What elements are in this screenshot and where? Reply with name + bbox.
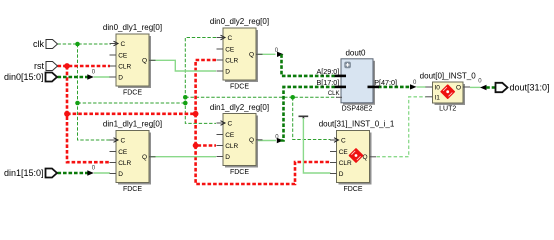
- flip-flop dout[31]_INST_0_i_1 FDCE: [319, 120, 395, 194]
- wire clk branch y=103 to x=172: [78, 102, 186, 104]
- wire dout31 Q to LUT2 I1: [377, 97, 427, 157]
- svg-text:din1_dly1_reg[0]: din1_dly1_reg[0]: [103, 120, 162, 129]
- node clk junction x172 y97.3: [183, 95, 188, 100]
- wire dout bus to port: [486, 86, 495, 89]
- wire din0_dly2 Q to ripper: [256, 53, 276, 55]
- svg-text:CLK: CLK: [328, 91, 340, 97]
- pin P[47:0]: [368, 86, 380, 89]
- svg-text:din0_dly1_reg[0]: din0_dly1_reg[0]: [103, 23, 162, 32]
- svg-text:dout[31]_INST_0_i_1: dout[31]_INST_0_i_1: [319, 120, 395, 129]
- svg-text:A[29:0]: A[29:0]: [317, 67, 340, 76]
- svg-text:I1: I1: [435, 94, 441, 101]
- svg-text:FDCE: FDCE: [123, 90, 142, 97]
- wire rst vertical x=195.6 up to din0_dly2 CLR: [196, 60, 216, 114]
- wire rst branch to din1_dly2 CLR: [196, 114, 216, 146]
- node merge triangle dout: [480, 85, 487, 90]
- wire din0_dly1 Q to din0_dly2 D: [149, 60, 216, 71]
- svg-text:P[47:0]: P[47:0]: [374, 78, 397, 87]
- wire rst net: port to din0_dly1 CLR: [58, 65, 111, 68]
- svg-text:B[17:0]: B[17:0]: [317, 78, 340, 87]
- wire P bit to LUT2 I0: [417, 86, 427, 88]
- svg-text:dout[0]_INST_0: dout[0]_INST_0: [420, 72, 477, 81]
- wire rst branch y=113.6: [67, 113, 196, 116]
- svg-text:din1_dly2_reg[0]: din1_dly2_reg[0]: [210, 103, 269, 112]
- pin B[17:0]: [335, 86, 346, 89]
- svg-text:din0[15:0]: din0[15:0]: [4, 72, 44, 82]
- wire clk branch down x=292.7 to dout31 C: [293, 97, 331, 139]
- DSP dout0 DSP48E2: [317, 49, 397, 113]
- node clk junction at port line: [75, 42, 80, 47]
- wire din0 bus from port: [58, 76, 89, 79]
- LUT dout[0]_INST_0 LUT2: [420, 72, 477, 113]
- flip-flop din1_dly1_reg[0] FDCE: [103, 120, 162, 194]
- port din0[15:0]: [4, 72, 57, 82]
- svg-text:O: O: [456, 85, 461, 92]
- wire din0 bit0 to D: [94, 76, 110, 78]
- wire din1_dly1 Q to din1_dly2 D: [149, 156, 216, 158]
- wire din1 bit0 to D: [94, 172, 110, 174]
- wire LUT2 O to merge triangle: [470, 86, 481, 88]
- svg-text:LUT2: LUT2: [439, 106, 456, 113]
- pin A[29:0]: [335, 75, 346, 78]
- node clk junction trunk/branch: [75, 101, 80, 106]
- svg-text:FDCE: FDCE: [123, 186, 142, 193]
- node clk junction x292.7: [290, 95, 295, 100]
- svg-text:FDCE: FDCE: [230, 84, 249, 91]
- wire const0 to dout31 D: [303, 118, 330, 173]
- svg-text:din1[15:0]: din1[15:0]: [4, 168, 44, 178]
- wire din1_dly2 Q to ripper: [256, 140, 276, 142]
- wire rst bottom route to dout31 CLR: [196, 146, 331, 185]
- node ripper triangle P->I0: [410, 84, 417, 89]
- svg-text:FDCE: FDCE: [343, 186, 362, 193]
- pin I0: [426, 86, 433, 88]
- port dout[31:0]: [496, 82, 550, 92]
- wire clk vertical trunk x=77.5 down to din1_dly1 C: [78, 44, 111, 140]
- port din1[15:0]: [4, 168, 57, 178]
- pin O: [463, 86, 470, 88]
- wire clk vertical x=172 from din0_dly2 C down to din1_dly2 C: [185, 38, 216, 124]
- svg-text:FDCE: FDCE: [230, 169, 249, 176]
- ground const0 tie symbol: [299, 116, 309, 119]
- svg-text:I0: I0: [435, 85, 441, 92]
- port clk: [33, 39, 58, 49]
- node rst junction at port line: [64, 63, 70, 69]
- node ripper triangle Q1: [277, 138, 284, 143]
- flip-flop din0_dly2_reg[0] FDCE: [210, 17, 269, 91]
- wire rst vertical x=67 down to din1_dly1 CLR: [67, 66, 110, 162]
- node rst junction y113.8: [64, 111, 70, 117]
- svg-text:dout0: dout0: [345, 49, 366, 58]
- port rst: [34, 61, 58, 71]
- node rst junction x195.6 y113.8: [193, 111, 199, 117]
- svg-text:din0_dly2_reg[0]: din0_dly2_reg[0]: [210, 17, 269, 26]
- node din0 bus ripper triangle: [87, 74, 94, 79]
- wire clk branch y=97.3 to DSP CLK: [185, 96, 337, 98]
- node din1 bus ripper triangle: [87, 170, 94, 175]
- wire clk net: port to din0_dly1 C: [58, 43, 112, 45]
- node ripper triangle Q0: [277, 52, 284, 57]
- wire DSP P output bus: [378, 86, 411, 89]
- svg-text:rst: rst: [34, 61, 44, 71]
- flip-flop din1_dly2_reg[0] FDCE: [210, 103, 269, 176]
- pin I1: [426, 96, 433, 98]
- wire din1 bus from port: [58, 172, 89, 175]
- node rst junction x195.6 y145.5: [193, 143, 199, 149]
- svg-text:dout[31:0]: dout[31:0]: [510, 82, 550, 92]
- flip-flop din0_dly1_reg[0] FDCE: [103, 23, 162, 97]
- wire B bus to DSP B pin: [281, 87, 336, 141]
- pin CLK: [336, 96, 342, 98]
- svg-text:DSP48E2: DSP48E2: [342, 105, 373, 112]
- node clk junction x172 y103: [183, 101, 188, 106]
- svg-text:clk: clk: [33, 39, 44, 49]
- wire A bus to DSP A pin: [282, 54, 336, 76]
